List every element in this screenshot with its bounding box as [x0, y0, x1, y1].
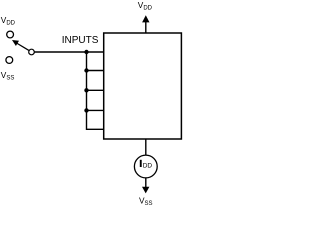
wire switch pole to input bus — [35, 51, 104, 53]
junction dot node 2 — [84, 68, 88, 72]
switch S1 pole circle — [29, 49, 35, 55]
switch S1 arm wire — [17, 43, 29, 50]
junction dot node 1 — [84, 50, 88, 54]
terminal VSS open circle — [6, 57, 13, 64]
DUT box U1 — [104, 33, 182, 139]
switch S1 arm arrowhead — [12, 40, 19, 46]
label IDD letter I — [140, 160, 142, 167]
terminal VDD open circle — [7, 31, 14, 38]
svg-text:INPUTS: INPUTS — [62, 35, 99, 46]
wire IDD meter to VSS — [145, 178, 147, 188]
input stub wire 3 — [87, 89, 104, 91]
junction dot node 4 — [84, 108, 88, 112]
svg-text:DD: DD — [143, 163, 153, 170]
VDD supply arrowhead — [142, 15, 149, 22]
ammeter IDD circle — [134, 155, 157, 178]
junction dot node 3 — [84, 88, 88, 92]
VSS return arrowhead — [142, 187, 149, 194]
VDD supply wire — [145, 21, 147, 34]
input bus vertical wire — [87, 52, 104, 129]
input stub wire 2 — [87, 70, 104, 72]
wire box to IDD meter — [145, 139, 147, 155]
input stub wire 4 — [87, 109, 104, 111]
